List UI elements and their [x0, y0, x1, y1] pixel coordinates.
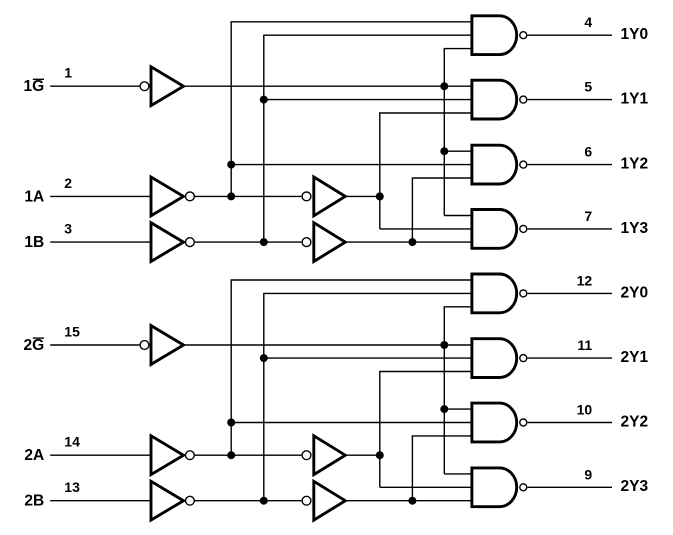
svg-text:9: 9 [584, 466, 592, 482]
wire G elbow to NAND 1Y3 input 1 [444, 215, 472, 217]
wire G elbow to NAND 2Y3 input 1 [444, 473, 472, 475]
inverter 1A second stage [302, 192, 311, 201]
svg-text:2: 2 [64, 175, 72, 191]
inverter 2A first stage [151, 436, 184, 475]
wire G branch to NAND 1Y2 input 1 [444, 150, 472, 152]
wire output 1Y1 (pin 5) [528, 99, 612, 101]
wire output 2Y2 (pin 10) [528, 422, 612, 424]
inverter 1A first stage [151, 177, 184, 216]
wire output 1Y3 (pin 7) [528, 228, 612, 230]
wire B vertical + elbow to NAND 1Y2 input 3 [412, 178, 472, 242]
inverter 2A second stage [302, 451, 311, 460]
node 1 B row junction [408, 238, 416, 246]
wire 2B input (pin 13) [50, 500, 151, 502]
node 2 B-bar branch junction [260, 354, 268, 362]
svg-text:14: 14 [64, 434, 80, 450]
svg-text:4: 4 [584, 14, 592, 30]
node 2 A-bar row junction [227, 451, 235, 459]
wire B net to NAND 1Y3 input 3 [345, 241, 472, 243]
wire G vertical + elbow to NAND 2Y0 input 3 [444, 307, 472, 474]
node 2 G branch junction [440, 405, 448, 413]
node 2 B-bar row junction [260, 497, 268, 505]
wire B-bar vertical + elbow to NAND 2Y0 input 2 [264, 293, 472, 500]
wire A-bar segment [195, 454, 302, 456]
node 2 B row junction [408, 497, 416, 505]
wire 1B input (pin 3) [50, 241, 151, 243]
inverter 2G enable buffer [140, 341, 149, 350]
wire G net row [184, 85, 472, 87]
svg-text:13: 13 [64, 479, 80, 495]
wire B-bar branch to NAND 1Y1 input 2 [264, 99, 472, 101]
wire A vertical + elbow to NAND 1Y1 input 3 [380, 113, 472, 229]
svg-text:2B: 2B [24, 493, 44, 510]
svg-text:11: 11 [577, 337, 592, 353]
wire B-bar segment [195, 500, 302, 502]
svg-text:2G: 2G [24, 337, 45, 354]
wire A elbow to NAND 2Y3 input 2 [380, 486, 472, 488]
wire B-bar branch to NAND 2Y1 input 2 [264, 357, 472, 359]
svg-text:1Y2: 1Y2 [621, 156, 649, 173]
svg-text:1G: 1G [24, 78, 45, 95]
NAND gate 2Y2 [472, 403, 517, 442]
wire B net to NAND 2Y3 input 3 [345, 500, 472, 502]
wire 1G input (pin 1) [50, 85, 139, 87]
node 1 A-bar row junction [227, 192, 235, 200]
svg-text:1Y0: 1Y0 [621, 26, 649, 43]
svg-text:10: 10 [577, 402, 593, 418]
inverter 2B first stage [151, 481, 184, 520]
svg-text:2Y0: 2Y0 [621, 284, 649, 301]
NAND gate 2Y3 [472, 468, 517, 507]
node 1 A-bar branch junction [227, 161, 235, 169]
svg-text:2A: 2A [24, 447, 44, 464]
wire A-bar segment [195, 195, 302, 197]
wire output 1Y0 (pin 4) [528, 34, 612, 36]
NAND gate 1Y2 [472, 145, 517, 184]
NAND gate 1Y0 [472, 16, 517, 55]
wire G net row [184, 344, 472, 346]
wire A-bar vertical + elbow to NAND 2Y0 input 1 [231, 280, 472, 455]
svg-text:5: 5 [584, 79, 592, 95]
node 1 B-bar row junction [260, 238, 268, 246]
svg-text:2Y2: 2Y2 [621, 413, 649, 430]
inverter 1B second stage [302, 238, 311, 247]
wire A elbow to NAND 1Y3 input 2 [380, 228, 472, 230]
svg-text:2Y3: 2Y3 [621, 478, 649, 495]
wire A-bar branch to NAND 2Y2 input 2 [231, 422, 472, 424]
wire output 2Y1 (pin 11) [528, 357, 612, 359]
node 1 G branch junction [440, 147, 448, 155]
wire 2A input (pin 14) [50, 454, 151, 456]
NAND gate 1Y1 [472, 80, 517, 119]
svg-text:15: 15 [64, 323, 80, 339]
svg-text:6: 6 [584, 144, 592, 160]
node 2 A row junction [376, 451, 384, 459]
wire B vertical + elbow to NAND 2Y2 input 3 [412, 436, 472, 501]
wire G branch to NAND 2Y2 input 1 [444, 408, 472, 410]
wire A net out of 2nd inverter [345, 195, 380, 197]
wire G vertical + elbow to NAND 1Y0 input 3 [444, 49, 472, 216]
inverter 1G enable buffer [140, 82, 149, 91]
wire B-bar segment [195, 241, 302, 243]
wire A-bar vertical + elbow to NAND 1Y0 input 1 [231, 22, 472, 197]
NAND gate 1Y3 [472, 210, 517, 249]
wire B-bar vertical + elbow to NAND 1Y0 input 2 [264, 35, 472, 242]
wire output 2Y0 (pin 12) [528, 292, 612, 294]
inverter 2B second stage [302, 496, 311, 505]
svg-text:12: 12 [577, 272, 593, 288]
wire output 1Y2 (pin 6) [528, 164, 612, 166]
NAND gate 2Y0 [472, 274, 517, 313]
node 2 G row junction [440, 341, 448, 349]
wire 2G input (pin 15) [50, 344, 139, 346]
wire A net out of 2nd inverter [345, 454, 380, 456]
wire 1A input (pin 2) [50, 195, 151, 197]
wire A vertical + elbow to NAND 2Y1 input 3 [380, 372, 472, 488]
wire A-bar branch to NAND 1Y2 input 2 [231, 164, 472, 166]
svg-text:1Y3: 1Y3 [621, 220, 649, 237]
node 1 A row junction [376, 192, 384, 200]
wire output 2Y3 (pin 9) [528, 486, 612, 488]
svg-text:1Y1: 1Y1 [621, 91, 649, 108]
svg-text:1B: 1B [24, 234, 44, 251]
node 2 A-bar branch junction [227, 419, 235, 427]
node 1 B-bar branch junction [260, 96, 268, 104]
svg-text:1A: 1A [24, 188, 44, 205]
node 1 G row junction [440, 82, 448, 90]
svg-text:3: 3 [64, 221, 72, 237]
svg-text:1: 1 [64, 65, 72, 81]
svg-text:2Y1: 2Y1 [621, 349, 649, 366]
svg-text:7: 7 [584, 208, 592, 224]
NAND gate 2Y1 [472, 339, 517, 378]
inverter 1B first stage [151, 223, 184, 262]
